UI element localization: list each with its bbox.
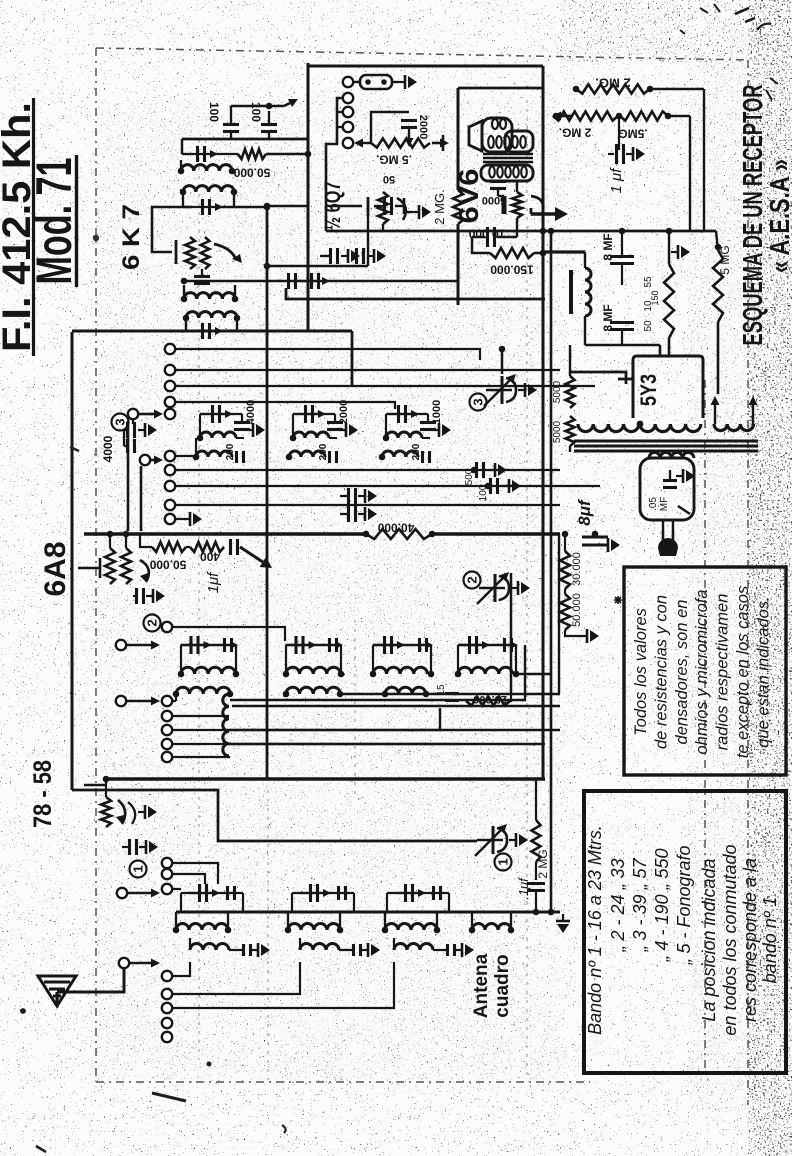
40.000 resistor	[363, 520, 436, 539]
svg-text:de resistencias y con: de resistencias y con	[652, 595, 670, 749]
switch bank A contacts	[343, 93, 353, 148]
label tube 6K7	[118, 204, 145, 270]
1uf cap right	[608, 116, 645, 193]
svg-text:densadores, son en: densadores, son en	[673, 600, 691, 745]
switch A wiper bus	[326, 98, 343, 231]
HV winding right	[711, 396, 758, 431]
svg-text:„ 3 - 39 „ 57: „ 3 - 39 „ 57	[630, 857, 650, 952]
svg-text:2: 2	[465, 576, 480, 583]
title ESQUEMA DE UN RECEPTOR	[737, 85, 768, 346]
scan marks bottom left	[21, 1009, 286, 1152]
star mark	[614, 596, 622, 604]
svg-text:radios respectivamen: radios respectivamen	[714, 594, 732, 751]
speaker windings	[488, 136, 526, 148]
6Q7 grid wire	[326, 197, 368, 216]
title underline 2	[75, 155, 78, 287]
wire B rows	[175, 349, 595, 409]
500 trimmer	[464, 462, 507, 485]
RF tap coil	[172, 694, 460, 762]
30.000 resistor	[560, 531, 583, 589]
osc cell band3	[379, 400, 451, 463]
IFT1 coils	[178, 154, 238, 207]
RF primary coil 2	[283, 687, 344, 697]
gnd top divider	[671, 245, 690, 259]
100 caps	[207, 102, 284, 139]
svg-text:6A8: 6A8	[39, 542, 72, 597]
100 trimmer	[478, 478, 521, 501]
band1 antenna trimmer	[181, 884, 243, 912]
svg-text:Antena: Antena	[471, 953, 492, 1018]
note box 1 text	[632, 586, 772, 758]
6K7 bypass cap	[194, 269, 210, 284]
svg-text:5000: 5000	[552, 420, 563, 443]
terminal to switch B2	[140, 455, 163, 465]
8MF cap 2	[601, 304, 634, 345]
svg-text:3: 3	[471, 398, 486, 405]
wire E det	[286, 273, 545, 299]
switch B gnd	[175, 512, 202, 526]
svg-text:2 MG.: 2 MG.	[432, 189, 447, 224]
50.000 osc resistor	[140, 534, 186, 571]
trunk top B+	[308, 65, 543, 68]
svg-text:2 MG.: 2 MG.	[595, 76, 630, 91]
6K7 hook	[214, 244, 242, 263]
6K7 grid loop	[152, 207, 192, 264]
svg-text:.1μf: .1μf	[516, 877, 531, 900]
stray mark mid left	[70, 447, 79, 451]
6V6 hook	[531, 196, 543, 210]
divider resistor	[643, 228, 674, 338]
IFT1 secondary cap	[183, 199, 270, 215]
IFT1 primary cap	[182, 146, 238, 162]
label tube 1/2 6Q7	[320, 182, 345, 231]
6Q7 bypass caps	[320, 248, 386, 264]
speaker cone	[469, 121, 482, 151]
svg-text:1000: 1000	[431, 400, 443, 424]
svg-text:res corresponde a la: res corresponde a la	[740, 858, 760, 1022]
5MG resistor	[713, 231, 732, 394]
svg-text:3: 3	[113, 418, 128, 425]
note box 2 text	[585, 825, 780, 1035]
gnd bottom trunk	[548, 909, 570, 933]
wire B lower rows	[175, 438, 600, 505]
wire x141 osc	[140, 466, 143, 531]
note box 2 border	[584, 791, 786, 1073]
svg-text:1 μf: 1 μf	[608, 167, 625, 194]
svg-text:78 - 58: 78 - 58	[29, 760, 57, 828]
svg-text:50.000: 50.000	[571, 593, 583, 627]
wires to taps	[669, 260, 705, 292]
frame dashed border	[96, 48, 748, 1105]
trunk vertical 3	[558, 534, 560, 694]
osc grid cap	[231, 539, 273, 568]
wire C to x308	[264, 203, 308, 210]
trunk AVC bus	[106, 777, 545, 780]
title F.I. 412.5 Kh.	[0, 102, 39, 352]
svg-text:5Y3: 5Y3	[636, 374, 661, 406]
svg-text:400: 400	[200, 549, 220, 563]
svg-text:2: 2	[145, 619, 160, 626]
trunk vertical left	[307, 63, 310, 332]
svg-text:2000: 2000	[417, 115, 429, 139]
svg-text:que estan indicados.: que estan indicados.	[754, 596, 772, 747]
2MG resistor row1	[543, 76, 704, 94]
speaker box	[482, 118, 533, 152]
gang cap 1	[475, 824, 528, 871]
IFT2 coils	[181, 285, 241, 331]
svg-text:2 MG: 2 MG	[536, 849, 550, 878]
band2 antenna coil	[285, 912, 344, 933]
svg-text:50.000: 50.000	[233, 165, 270, 179]
terminal to switch C2	[116, 696, 160, 706]
svg-text:en todos los conmutado: en todos los conmutado	[720, 844, 740, 1035]
svg-text:.5MG: .5MG	[618, 126, 647, 140]
label Antena cuadro	[471, 953, 513, 1018]
RF lower coil 3	[382, 687, 430, 697]
6Q7 grid cap 50	[374, 173, 404, 215]
divider gnd	[565, 629, 599, 643]
svg-text:bando nº 1: bando nº 1	[760, 897, 780, 984]
RF primary coil 1	[173, 687, 234, 697]
trunk oscillator bus	[84, 532, 560, 535]
5Y3 plate wires	[585, 338, 669, 356]
band1 coupling coil	[190, 938, 270, 957]
chassis box bottom link	[72, 790, 477, 841]
gang cap 2	[464, 572, 531, 605]
transformer core2	[574, 441, 758, 451]
RF tuned cell 1	[178, 636, 240, 677]
gang cap 3	[470, 374, 538, 411]
8uf cap	[575, 498, 620, 552]
wire gang2 link	[510, 573, 513, 694]
svg-text:« A.E.S.A »: « A.E.S.A »	[764, 159, 792, 273]
2000 trimmer cap	[371, 112, 429, 147]
svg-text:Todos los valores: Todos los valores	[632, 608, 650, 736]
5000 output cap	[482, 181, 506, 214]
25.000 resistor	[436, 684, 511, 705]
title A.E.S.A	[764, 159, 792, 273]
5Y3 outline	[570, 356, 703, 418]
antenna bus	[176, 911, 560, 914]
svg-text:5 MG: 5 MG	[718, 245, 732, 274]
6V6 grid resistor 2MG	[432, 189, 463, 224]
circled 2 top	[144, 615, 161, 632]
diode caps	[340, 488, 377, 522]
78 cathode resistor	[101, 776, 111, 827]
2MG .5MG row2	[543, 111, 690, 140]
wire C top	[172, 627, 285, 641]
svg-text:150: 150	[650, 290, 660, 305]
wire D 6K7 out	[181, 278, 458, 285]
wire C2 coil	[172, 694, 176, 701]
switch bank D contacts	[162, 858, 172, 1042]
terminal to switch B1	[128, 409, 163, 419]
svg-text:30.000: 30.000	[571, 552, 583, 586]
power plug	[658, 520, 678, 556]
wire switch D top	[172, 863, 218, 884]
band2 antenna trimmer	[292, 884, 354, 912]
svg-text:50.000: 50.000	[149, 557, 186, 571]
svg-text:cuadro: cuadro	[492, 954, 513, 1017]
HV winding	[578, 421, 701, 432]
chassis box left	[71, 332, 74, 790]
svg-text:.05: .05	[648, 497, 659, 511]
6A8 cathode resistors	[105, 531, 131, 584]
svg-text:„ 4 - 190 „ 550: „ 4 - 190 „ 550	[652, 848, 672, 962]
RF tuned cell 3	[370, 636, 435, 677]
RF tuned cell 2	[283, 636, 345, 677]
50.000 IF resistor	[233, 149, 311, 179]
wire x125 osc	[127, 421, 130, 531]
RF tuned cell 4	[455, 636, 551, 677]
svg-text:1: 1	[496, 858, 511, 865]
svg-text:25.000: 25.000	[473, 693, 507, 705]
svg-text:ohmios y micromicrofa: ohmios y micromicrofa	[693, 589, 711, 754]
svg-text:4000: 4000	[245, 400, 257, 424]
svg-text:Bando nº 1 - 16 a 23 Mtr: Bando nº 1 - 16 a 23 Mtrs.	[585, 825, 605, 1035]
5000 bleeder resistors	[552, 345, 575, 452]
wires switch D to coils	[172, 889, 394, 1008]
svg-text:4000: 4000	[101, 435, 115, 462]
svg-text:200: 200	[318, 443, 329, 460]
band4 antenna coil	[469, 912, 515, 933]
fold dot left frame	[93, 235, 99, 241]
label tube 6A8	[39, 542, 72, 597]
note box 1 border	[624, 567, 786, 775]
RF bus lines right	[229, 708, 560, 744]
6V6 cathode resistor	[512, 181, 522, 228]
svg-text:8 MF: 8 MF	[601, 304, 615, 331]
svg-text:.5 MG.: .5 MG.	[376, 152, 412, 166]
trunk vertical B+	[542, 66, 545, 779]
svg-text:1μf: 1μf	[205, 571, 222, 594]
osc cell band2	[286, 400, 358, 463]
output secondary box	[481, 165, 533, 181]
svg-text:2 MG.: 2 MG.	[559, 125, 592, 139]
line filter box	[640, 458, 695, 520]
title underline 1	[32, 98, 35, 356]
band1 antenna coil	[173, 912, 232, 933]
trunk vertical 6V6	[458, 88, 543, 305]
150.000 resistor	[490, 248, 546, 276]
6Q7 grid return	[264, 216, 368, 269]
2MG rf resistor	[532, 779, 551, 880]
svg-text:6 K 7: 6 K 7	[118, 204, 145, 270]
svg-text:200: 200	[411, 443, 422, 460]
transformer core	[483, 154, 533, 162]
wire x267	[266, 210, 269, 779]
8MF cap 1	[601, 228, 634, 285]
6A8 bypass cap	[133, 588, 165, 604]
78 coil hook	[116, 800, 135, 824]
band3 coupling coil	[394, 938, 474, 957]
osc cell band1	[193, 400, 265, 463]
band3 antenna coil	[382, 912, 441, 933]
svg-text:„ 2 - 24 „ 33: „ 2 - 24 „ 33	[608, 858, 628, 952]
title Mod. 71	[26, 158, 82, 285]
switch bank C contacts	[162, 622, 172, 762]
6Q7 hook	[397, 198, 406, 220]
svg-text:Mod. 71: Mod. 71	[26, 158, 82, 285]
1uf osc label	[205, 571, 222, 594]
fold lines	[199, 100, 527, 1080]
svg-text:„ 5 - Fonografo: „ 5 - Fonografo	[674, 845, 694, 965]
filament winding	[649, 452, 694, 458]
circled 1 left	[130, 861, 147, 878]
6Q7 cathode resistor	[378, 192, 388, 232]
label tube 78-58	[29, 760, 57, 828]
svg-text:50: 50	[643, 320, 654, 332]
band2 coupling coil	[300, 938, 380, 957]
svg-text:50: 50	[383, 173, 395, 185]
antenna	[38, 968, 124, 1006]
6A8 grid bar	[78, 558, 100, 578]
trunk vertical 2	[550, 231, 553, 912]
svg-text:1: 1	[131, 865, 146, 872]
10.000 cap	[468, 226, 517, 253]
400 osc resistor	[186, 542, 224, 563]
78 gnd	[138, 805, 157, 819]
label tube 6V6	[453, 169, 484, 224]
svg-text:La posicion indicada: La posicion indicada	[699, 858, 719, 1021]
svg-text:150.000: 150.000	[490, 262, 534, 276]
svg-text:MF: MF	[659, 497, 670, 511]
4000 pad cap	[101, 420, 157, 462]
6K7 cathode resistor	[185, 237, 209, 269]
svg-text:te excepto en los casos: te excepto en los casos	[734, 586, 752, 758]
osc gang wire	[499, 346, 506, 374]
RF bus right	[230, 645, 560, 706]
scan marks top right corner	[680, 4, 778, 100]
.1uf cap	[516, 877, 545, 915]
svg-text:8μf: 8μf	[575, 498, 594, 526]
svg-text:15: 15	[436, 684, 447, 696]
6A8 cathode hook	[140, 560, 149, 582]
terminal to switch D	[117, 888, 160, 898]
.5MG resistor	[354, 135, 449, 166]
band3 antenna trimmer	[387, 884, 449, 912]
terminal to switch C1	[116, 640, 160, 650]
svg-text:40.000: 40.000	[377, 520, 414, 534]
verticals right	[690, 89, 704, 231]
svg-text:8 MF: 8 MF	[601, 233, 615, 260]
filter choke	[543, 252, 591, 345]
6V6 gnd arrow	[531, 207, 568, 221]
78 bypass cap	[122, 839, 158, 855]
svg-text:200: 200	[225, 443, 236, 460]
phono jack	[343, 75, 417, 89]
svg-text:100: 100	[207, 102, 221, 122]
50.000 divider	[560, 589, 583, 630]
wire B	[182, 139, 308, 154]
antenna terminal	[119, 958, 160, 968]
chassis box top	[72, 331, 352, 386]
svg-text:5000: 5000	[552, 380, 563, 403]
B+ top horizontal	[326, 112, 716, 235]
circled 3	[112, 414, 129, 431]
arrow top	[284, 99, 298, 107]
svg-text:55: 55	[643, 276, 654, 288]
switch bank B contacts	[165, 344, 175, 524]
label tube 5Y3	[636, 374, 661, 406]
6Q7 gnd	[404, 205, 431, 219]
svg-text:2000: 2000	[338, 400, 350, 424]
IFT2 trim cap	[192, 323, 223, 339]
78 grid bar	[84, 775, 106, 795]
